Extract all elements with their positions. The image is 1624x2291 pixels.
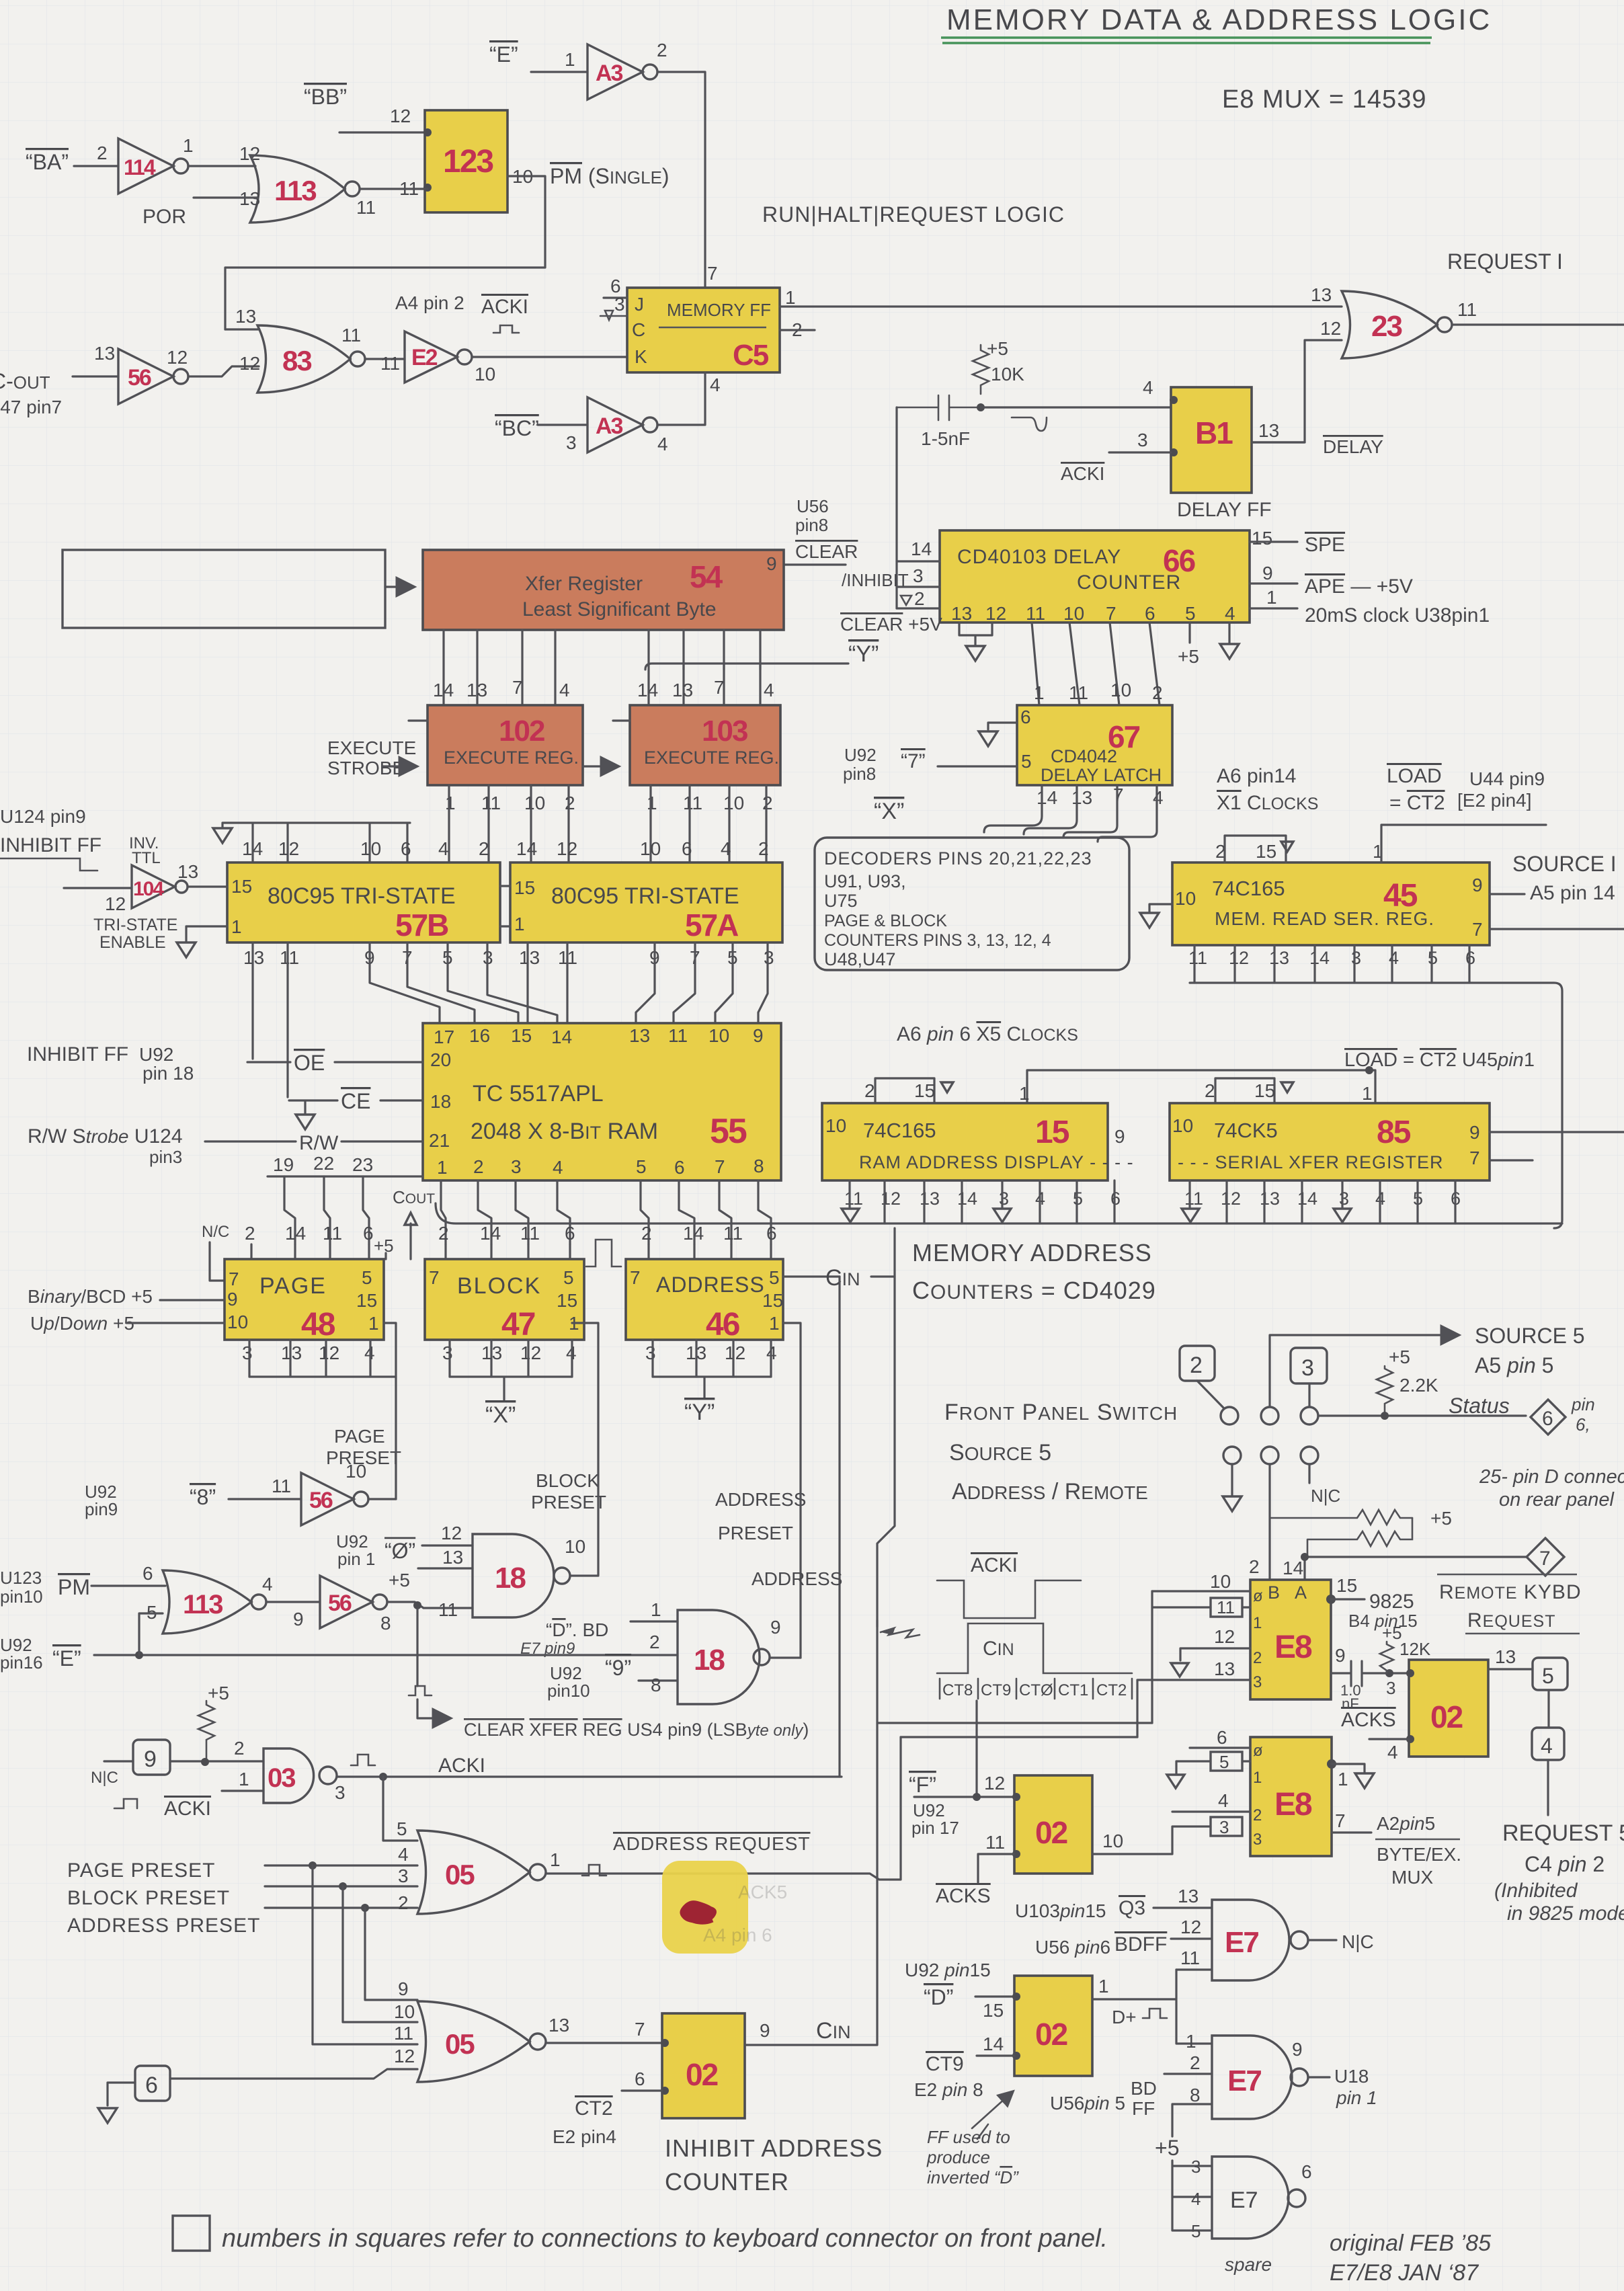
node Up/Down +5: [30, 1313, 225, 1334]
node U56 pin6 BDFF: [1035, 1933, 1167, 1958]
text FRONT PANEL SWITCH / SOURCE 5 / ADDRESS REMOTE: [944, 1400, 1178, 1504]
svg-text:TC 5517APL: TC 5517APL: [473, 1081, 604, 1107]
wire 113 to 123 pin11: [360, 188, 428, 190]
svg-text:BLOCK PRESET: BLOCK PRESET: [67, 1887, 230, 1909]
NAND gate E7 (spare): [1212, 2157, 1312, 2239]
wire C5 pin2 stub: [780, 329, 815, 331]
RAM 55 TC5517APL: [423, 1023, 781, 1180]
102 top pin labels: [433, 677, 570, 700]
svg-text:3: 3: [1301, 1355, 1314, 1381]
wire +5 to E7b pin8: [1172, 2104, 1212, 2136]
svg-text:TRI-STATE: TRI-STATE: [93, 916, 177, 934]
svg-text:8: 8: [651, 1675, 661, 1695]
svg-text:123: 123: [443, 144, 493, 179]
node U103 pin15 Q3: [1015, 1897, 1145, 1921]
wire E8b pin7 output: [1332, 1831, 1371, 1833]
svg-text:80C95 TRI-STATE: 80C95 TRI-STATE: [551, 883, 739, 909]
svg-text:11: 11: [272, 1476, 291, 1496]
RAM pins 19,22,23 row: [268, 1153, 423, 1176]
wire D+ to E7 pin11: [1176, 1968, 1212, 1970]
svg-text:U92: U92: [139, 1044, 173, 1065]
wire E7 out N/C: [1308, 1939, 1336, 1941]
mux E8 (upper): [1250, 1580, 1331, 1699]
flip-flop 123: [399, 110, 533, 212]
svg-text:REQUEST 5: REQUEST 5: [1502, 1820, 1624, 1846]
svg-text:2: 2: [1253, 1649, 1262, 1667]
svg-text:FF used to: FF used to: [927, 2127, 1010, 2147]
svg-text:14: 14: [516, 838, 537, 859]
svg-text:CE: CE: [341, 1089, 370, 1113]
svg-text:ADDRESS: ADDRESS: [752, 1568, 842, 1589]
counter 48 PAGE: [225, 1259, 384, 1342]
svg-text:pin3: pin3: [149, 1147, 182, 1167]
svg-text:9: 9: [1262, 563, 1273, 584]
node INHIBIT FF U92 pin18: [27, 1043, 194, 1084]
svg-text:8: 8: [1190, 2085, 1201, 2105]
wire OE: [247, 1051, 423, 1075]
wire D to 02 pin15: [975, 1995, 1014, 1997]
svg-text:REMOTE KYBD: REMOTE KYBD: [1439, 1581, 1582, 1603]
svg-text:OE: OE: [294, 1051, 325, 1075]
svg-text:C: C: [632, 319, 645, 340]
svg-text:12: 12: [1320, 318, 1341, 339]
wire PM from 123 pin10: [225, 176, 545, 329]
bus 45 to right corner: [1190, 983, 1562, 1228]
svg-text:10: 10: [1102, 1831, 1123, 1851]
inverter 104: [105, 861, 198, 914]
svg-text:7: 7: [1469, 1148, 1480, 1168]
svg-text:3: 3: [1253, 1673, 1262, 1691]
svg-text:BDFF: BDFF: [1114, 1933, 1167, 1956]
wire APE: [1250, 582, 1297, 584]
svg-text:113: 113: [274, 175, 316, 206]
wire 57A enable stubs: [500, 886, 510, 926]
svg-text:pin10: pin10: [0, 1586, 43, 1607]
wire square9 to 03 pin2: [170, 1760, 263, 1762]
svg-text:2: 2: [1190, 1353, 1203, 1378]
svg-text:U91, U93,: U91, U93,: [824, 871, 906, 891]
svg-text:12: 12: [394, 2046, 415, 2066]
svg-text:14: 14: [1309, 948, 1330, 968]
svg-text:pin10: pin10: [547, 1681, 590, 1701]
svg-text:4: 4: [398, 1844, 409, 1865]
svg-text:ø: ø: [1253, 1587, 1263, 1605]
svg-text:15: 15: [514, 877, 535, 898]
svg-text:N|C: N|C: [1342, 1931, 1374, 1952]
svg-text:ACKI: ACKI: [438, 1755, 485, 1777]
wire cap left to CD40103: [895, 407, 897, 608]
buffer 57A 80C95: [510, 862, 782, 942]
wire BD to E7b pin2: [1164, 2073, 1212, 2075]
svg-text:ACKI: ACKI: [164, 1798, 211, 1820]
svg-text:14: 14: [1283, 1558, 1303, 1578]
svg-text:“Y”: “Y”: [848, 641, 879, 667]
node Cout: [393, 1187, 435, 1259]
square 2 keyboard: [1180, 1346, 1223, 1408]
svg-text:INHIBIT FF: INHIBIT FF: [27, 1043, 128, 1066]
svg-text:13: 13: [177, 861, 198, 882]
svg-text:+5: +5: [208, 1683, 229, 1703]
ground bracket 57B top-left pins: [213, 823, 411, 862]
57B bottom pins: [243, 947, 493, 968]
node C-OUT / U47 pin7: [0, 369, 62, 417]
svg-text:U48,U47: U48,U47: [824, 949, 896, 969]
ground at 66 pin4: [1220, 622, 1239, 659]
svg-text:12: 12: [984, 1773, 1005, 1794]
svg-text:19: 19: [273, 1154, 294, 1175]
svg-text:6: 6: [682, 838, 692, 859]
svg-text:57A: 57A: [685, 908, 738, 942]
square 3 keyboard: [1291, 1348, 1327, 1406]
svg-text:7: 7: [635, 2019, 645, 2040]
svg-text:DELAY FF: DELAY FF: [1177, 499, 1272, 521]
svg-text:“BA”: “BA”: [26, 150, 69, 174]
capacitor 1.5nF: [897, 395, 981, 449]
svg-text:13: 13: [1269, 948, 1289, 968]
svg-text:9825: 9825: [1369, 1591, 1414, 1613]
note box decoders: [815, 838, 1129, 970]
IC 67 CD4042 delay latch: [1017, 705, 1172, 785]
svg-text:6: 6: [1542, 1408, 1553, 1430]
NAND gate 18 (block preset): [473, 1534, 585, 1617]
svg-text:LOAD: LOAD: [1387, 765, 1442, 787]
svg-text:4: 4: [764, 680, 774, 700]
svg-text:7: 7: [429, 1267, 440, 1288]
svg-text:7: 7: [707, 263, 718, 284]
svg-text:2: 2: [1249, 1556, 1260, 1577]
svg-text:15: 15: [511, 1025, 532, 1046]
svg-text:1: 1: [1253, 1769, 1262, 1787]
wires 67 bottom hooks: [984, 785, 1157, 842]
square 9 keyboard: [91, 1740, 170, 1787]
IC 45 74C165 mem read ser reg: [1172, 862, 1490, 945]
wire E2 to C5 pin K: [472, 356, 627, 358]
highlighter blob redaction: [662, 1861, 748, 1954]
svg-text:STROBE: STROBE: [327, 758, 405, 778]
svg-text:2: 2: [565, 793, 575, 813]
svg-text:2: 2: [1190, 2052, 1201, 2073]
svg-text:6: 6: [1301, 2161, 1312, 2182]
svg-text:13: 13: [549, 2015, 569, 2036]
text PAGE PRESET: [326, 1426, 401, 1468]
svg-text:1: 1: [239, 1769, 249, 1790]
svg-text:1: 1: [1186, 2031, 1196, 2052]
+5 at 66 pin5: [1188, 622, 1190, 643]
svg-text:“BB”: “BB”: [304, 85, 347, 109]
ADDRESS top pin labels: [641, 1223, 777, 1259]
svg-text:7: 7: [1472, 919, 1483, 940]
svg-text:J: J: [635, 294, 644, 315]
node "9" U92 pin10: [547, 1656, 631, 1701]
svg-text:2: 2: [641, 1223, 652, 1244]
text A2 pin5 BYTE/EX MUX: [1375, 1813, 1461, 1888]
svg-text:C-OUT: C-OUT: [0, 369, 50, 393]
svg-text:2: 2: [97, 143, 108, 163]
text FF used to produce inverted D: [926, 2092, 1019, 2187]
wire page preset to 05: [265, 1864, 417, 1866]
wire CT9 to 02 pin14: [977, 2054, 1014, 2056]
node "E" (U92 pin16): [0, 1635, 81, 1673]
svg-text:13: 13: [1214, 1658, 1235, 1679]
text A6 pin14 X1 clocks: [1217, 765, 1318, 814]
svg-text:+5: +5: [1155, 2136, 1179, 2160]
svg-text:11: 11: [1217, 1597, 1235, 1617]
svg-text:BLOCK: BLOCK: [457, 1273, 541, 1299]
svg-text:14: 14: [957, 1189, 977, 1209]
svg-text:3: 3: [242, 1342, 253, 1363]
svg-text:A4 pin 6: A4 pin 6: [703, 1925, 772, 1945]
inverter 56 (Cout): [118, 347, 188, 404]
svg-text:10: 10: [708, 1025, 729, 1046]
svg-text:12: 12: [520, 1342, 541, 1363]
svg-text:7: 7: [630, 1267, 641, 1288]
svg-text:2: 2: [234, 1738, 245, 1759]
svg-text:U124 pin9: U124 pin9: [0, 806, 86, 827]
svg-text:18: 18: [430, 1091, 451, 1112]
svg-text:4: 4: [1143, 377, 1153, 398]
svg-text:“Y”: “Y”: [684, 1400, 715, 1425]
svg-text:10: 10: [227, 1312, 248, 1332]
wire Cout to 56: [73, 375, 118, 377]
svg-text:13: 13: [951, 603, 972, 624]
boxed pin 5: [1167, 1752, 1250, 1788]
NAND gate 03: [263, 1749, 346, 1803]
svg-text:3: 3: [645, 1342, 656, 1363]
svg-text:11: 11: [323, 1223, 342, 1244]
svg-text:“E”: “E”: [52, 1646, 81, 1671]
svg-text:2.2K: 2.2K: [1399, 1375, 1438, 1396]
inverter 56 (page preset): [301, 1461, 368, 1525]
svg-text:5: 5: [1219, 1752, 1229, 1772]
svg-text:02: 02: [1430, 1699, 1463, 1734]
svg-text:12: 12: [985, 603, 1006, 624]
svg-text:104: 104: [133, 878, 164, 900]
svg-text:2: 2: [398, 1892, 409, 1913]
svg-text:12: 12: [105, 893, 126, 914]
57B top-right pin labels: [438, 838, 577, 859]
text MEMORY ADDRESS COUNTERS: [912, 1239, 1156, 1304]
wire BA to 114: [74, 165, 118, 167]
svg-text:7: 7: [1113, 785, 1124, 805]
svg-text:CLEAR +5V: CLEAR +5V: [840, 614, 942, 635]
svg-text:2: 2: [1253, 1806, 1262, 1824]
svg-text:1: 1: [437, 1157, 448, 1178]
svg-text:3: 3: [1137, 430, 1148, 450]
svg-text:15: 15: [231, 876, 252, 897]
svg-text:ø: ø: [1253, 1742, 1263, 1760]
svg-text:14: 14: [1037, 787, 1057, 808]
svg-text:4: 4: [1389, 948, 1399, 968]
wire to B1 pin4 with dip: [981, 406, 1171, 408]
svg-text:INHIBIT ADDRESS: INHIBIT ADDRESS: [665, 2134, 883, 2162]
svg-text:ADDRESS: ADDRESS: [656, 1273, 765, 1297]
svg-text:pin 1: pin 1: [1336, 2087, 1377, 2108]
svg-text:1: 1: [651, 1599, 661, 1620]
wire 56 to 18 pin11: [387, 1602, 473, 1608]
boxed pin 11: [1152, 1591, 1250, 1723]
svg-text:1-5nF: 1-5nF: [921, 428, 970, 449]
wire strobe into 102: [383, 765, 415, 767]
wire BDFF to E7 pin12: [1171, 1937, 1212, 1939]
svg-text:K: K: [635, 346, 647, 367]
svg-text:U123: U123: [0, 1568, 42, 1588]
wire 83 to E2: [365, 358, 405, 360]
svg-text:22: 22: [313, 1153, 334, 1174]
svg-text:1: 1: [368, 1313, 379, 1334]
svg-text:14: 14: [1297, 1189, 1317, 1209]
CIN waveform: [937, 1623, 1132, 1699]
svg-text:A2pin5: A2pin5: [1377, 1813, 1435, 1834]
wire 54 pin9 to clear: [784, 563, 846, 565]
wire 67 pin6 to ground: [979, 707, 1031, 746]
wire 104 out to 57B pin15: [188, 885, 227, 887]
bracket 15 pins 2,15: [875, 1078, 934, 1103]
svg-text:3: 3: [398, 1865, 409, 1886]
counter 46 ADDRESS: [626, 1259, 783, 1342]
svg-text:3: 3: [442, 1342, 453, 1363]
svg-text:8: 8: [754, 1156, 764, 1176]
NOR gate 05 (address request): [417, 1831, 561, 1914]
svg-text:CT1: CT1: [1058, 1681, 1088, 1699]
svg-text:11: 11: [1184, 1189, 1203, 1209]
svg-text:MUX: MUX: [1391, 1867, 1434, 1888]
svg-text:“X”: “X”: [485, 1402, 516, 1428]
svg-text:R/W Strobe U124: R/W Strobe U124: [28, 1125, 183, 1148]
svg-text:1: 1: [647, 793, 657, 813]
svg-text:11: 11: [341, 325, 361, 346]
svg-text:13: 13: [629, 1025, 650, 1046]
wire 67 pin5 from U92 "7": [938, 765, 1017, 767]
svg-text:CIN: CIN: [816, 2018, 851, 2044]
node "D" BD: [520, 1619, 608, 1658]
svg-text:3: 3: [1191, 2157, 1201, 2177]
svg-text:E2 pin4: E2 pin4: [553, 2126, 616, 2147]
svg-text:4: 4: [262, 1574, 273, 1595]
svg-text:1: 1: [1253, 1614, 1262, 1632]
svg-text:12: 12: [441, 1523, 462, 1543]
svg-text:2: 2: [245, 1223, 255, 1244]
svg-text:9: 9: [753, 1025, 764, 1046]
svg-text:ACKS: ACKS: [936, 1885, 991, 1907]
BLOCK bottom pins: [442, 1340, 577, 1428]
wire 45 pin1 load: [1381, 825, 1546, 862]
svg-text:5: 5: [1542, 1664, 1554, 1688]
svg-text:56: 56: [128, 365, 151, 391]
svg-text:RAM ADDRESS DISPLAY - - - -: RAM ADDRESS DISPLAY - - - -: [859, 1152, 1134, 1172]
wires 54 bottom to 103: [649, 630, 760, 705]
svg-text:+5: +5: [389, 1570, 410, 1591]
svg-text:4: 4: [721, 838, 731, 859]
svg-text:12: 12: [239, 143, 260, 164]
svg-text:D+: D+: [1112, 2007, 1137, 2027]
svg-text:ACKS: ACKS: [1341, 1709, 1396, 1731]
svg-text:3: 3: [566, 432, 577, 453]
svg-text:11: 11: [844, 1189, 863, 1209]
svg-text:CTØ: CTØ: [1019, 1681, 1053, 1699]
inverter 114: [97, 135, 194, 194]
wire E8b pin1 output to ground: [1327, 1759, 1374, 1790]
node "F" U92 pin17: [909, 1773, 959, 1838]
svg-text:11: 11: [723, 1223, 743, 1244]
wire 02 pin10 out: [1092, 1826, 1211, 1854]
svg-text:1: 1: [183, 135, 194, 156]
svg-text:ADDRESS REQUEST: ADDRESS REQUEST: [613, 1833, 811, 1854]
register 103 execute reg: [630, 705, 780, 785]
wires 54 bottom to 102: [444, 630, 555, 705]
svg-text:12: 12: [1214, 1626, 1235, 1647]
57A bottom pins: [519, 947, 774, 968]
svg-text:6: 6: [565, 1223, 575, 1244]
node CT2 E2 pin4: [553, 2097, 616, 2147]
svg-text:11: 11: [280, 947, 299, 968]
text ADDRESS PRESET: [715, 1489, 806, 1543]
wire arrow into 54: [385, 586, 413, 588]
wire 02 pin1 out D+: [1092, 1970, 1212, 2044]
svg-text:17: 17: [434, 1027, 454, 1047]
svg-text:on rear panel: on rear panel: [1499, 1489, 1615, 1511]
pulse symbol: [493, 325, 519, 333]
wire E up to 113 pin5: [139, 1613, 163, 1655]
svg-text:APE — +5V: APE — +5V: [1305, 575, 1413, 598]
svg-text:CT2: CT2: [1096, 1681, 1127, 1699]
NAND gate 18 (address preset): [678, 1610, 781, 1704]
svg-text:E8 MUX = 14539: E8 MUX = 14539: [1222, 85, 1426, 114]
svg-text:A3: A3: [596, 413, 623, 439]
svg-text:20: 20: [430, 1049, 451, 1070]
svg-text:DELAY LATCH: DELAY LATCH: [1041, 765, 1162, 785]
svg-text:A5 pin 14: A5 pin 14: [1530, 882, 1615, 904]
svg-text:113: 113: [183, 1590, 222, 1619]
svg-text:4: 4: [657, 434, 668, 454]
svg-text:15: 15: [356, 1290, 377, 1311]
wire middle contact down to E8: [1268, 1464, 1270, 1580]
wire DELAY to NOR23 pin12: [1252, 340, 1342, 442]
svg-text:X1 CLOCKS: X1 CLOCKS: [1217, 792, 1318, 814]
svg-text:A5 pin 5: A5 pin 5: [1475, 1353, 1553, 1377]
N/C right contact: [1309, 1464, 1340, 1506]
flip-flop 02 inhibit address counter: [661, 2013, 745, 2118]
text INHIBIT ADDRESS COUNTER: [665, 2134, 883, 2196]
svg-text:20mS clock U38pin1: 20mS clock U38pin1: [1305, 604, 1490, 627]
wire E8 pin15 output 9825: [1326, 1575, 1418, 1631]
103 bottom pins: [647, 793, 773, 813]
svg-text:BYTE/EX.: BYTE/EX.: [1377, 1844, 1461, 1865]
wire ACKI-bar to 03 pin1: [222, 1790, 263, 1792]
wire RAM data bus: [436, 1203, 1562, 1223]
svg-text:EXECUTE REG.: EXECUTE REG.: [644, 748, 779, 768]
grounds 15 pins 11,3: [842, 1209, 1011, 1222]
svg-text:2: 2: [438, 1223, 449, 1244]
wire square6 to 05 pin12: [170, 2069, 417, 2079]
svg-text:2: 2: [473, 1156, 484, 1177]
svg-text:1: 1: [1034, 682, 1045, 703]
register 85 serial xfer: [1170, 1103, 1490, 1180]
svg-text:E2: E2: [411, 345, 438, 370]
svg-text:8: 8: [380, 1613, 391, 1634]
wire CLEAR pin2: [897, 607, 940, 609]
svg-text:in 9825 mode): in 9825 mode): [1507, 1902, 1624, 1925]
wire NOR23 out: [1452, 323, 1624, 325]
register 54 xfer LSB: [423, 550, 784, 630]
svg-text:9: 9: [144, 1746, 157, 1772]
svg-text:pin8: pin8: [843, 764, 876, 784]
svg-text:2: 2: [762, 793, 773, 813]
wire 18 out to address preset: [770, 1656, 801, 1658]
svg-text:21: 21: [429, 1130, 450, 1151]
arrow at Cin vertical: [881, 1628, 920, 1638]
svg-text:A4 pin 2: A4 pin 2: [395, 292, 464, 313]
svg-text:66: 66: [1163, 543, 1195, 578]
